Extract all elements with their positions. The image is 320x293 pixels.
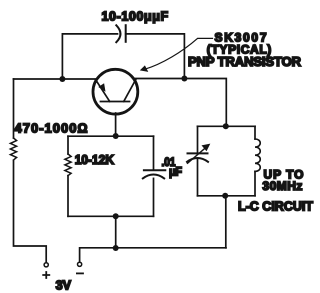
wire: tank loop top [198,125,256,127]
svg-text:PNP TRANSISTOR: PNP TRANSISTOR [188,54,302,69]
wire: middle loop bottom [68,215,154,217]
wire: middle loop left lower [67,176,69,217]
wire: middle drop to battery bus [115,216,117,248]
svg-text:μF: μF [169,167,182,179]
transistor Q1 emitter arrowhead (PNP, pointing to base) [98,83,105,92]
resistor R1 zigzag [10,138,16,160]
resistor R2 zigzag [65,154,71,176]
battery terminal + circle [44,263,48,267]
wire: battery minus bus to tank drop [80,248,226,262]
node junction dot collector/feedback [181,76,187,82]
wire: middle loop right upper [153,136,155,169]
leader arrowhead [140,65,149,72]
svg-text:3V: 3V [56,278,72,292]
wire: tank bottom [198,195,256,197]
wire: middle loop left upper [67,136,69,154]
svg-text:L-C CIRCUIT: L-C CIRCUIT [238,199,313,214]
wire: top feedback branch right (C1 to collector node) [126,34,185,79]
wire: left rail upper [13,79,15,138]
battery + sign [43,272,49,278]
capacitor C2 curved plate [143,175,164,179]
svg-text:30MHz: 30MHz [262,179,302,193]
capacitor C3 variable arrowhead [202,144,211,152]
transistor Q1 circle [93,69,138,114]
node junction dot emitter/feedback [59,76,65,82]
wire: base lead down from Q1 [115,113,117,136]
transistor Q1 base bar [101,101,130,103]
leader arrow from label to Q1 [145,38,213,69]
wire: tank left upper [197,126,199,152]
capacitor C2 straight plate [144,169,165,171]
wire: middle loop right lower [153,178,155,216]
wire: left rail lower to battery + [14,160,47,262]
node junction dot bus [113,245,119,251]
battery terminal - circle [78,262,82,266]
wire: top feedback branch left (emitter node up and across to C1) [62,34,117,79]
node junction dot base [113,133,119,139]
capacitor C1 curved plate [116,25,120,42]
wire: tank right lower [254,171,256,195]
node junction dot middle bottom [113,213,119,219]
node junction dot tank top [223,123,229,129]
wire: tank bottom drop to bus [225,196,227,248]
capacitor C3 curved plate [187,158,208,162]
transistor Q1 collector diagonal [124,80,136,102]
svg-text:10-100μμF: 10-100μμF [102,10,169,24]
wire: tank left lower [197,158,199,196]
wire: middle loop top (base node bus) [68,135,154,137]
wire: tank right upper [254,126,256,139]
svg-text:10-12K: 10-12K [75,153,114,167]
wire: collector wire to tank circuit [135,79,226,127]
capacitor C3 straight plate [188,152,208,154]
capacitor C3 variable arrow shaft [188,147,208,164]
transistor Q1 emitter diagonal [96,80,110,102]
wire: emitter wire from left rail to Q1 [14,78,97,80]
battery - sign [77,272,83,274]
capacitor C1 straight plate [125,25,127,42]
svg-text:470-1000Ω: 470-1000Ω [15,121,88,136]
inductor L1 coil [255,139,260,171]
node junction dot tank bottom [222,193,228,199]
